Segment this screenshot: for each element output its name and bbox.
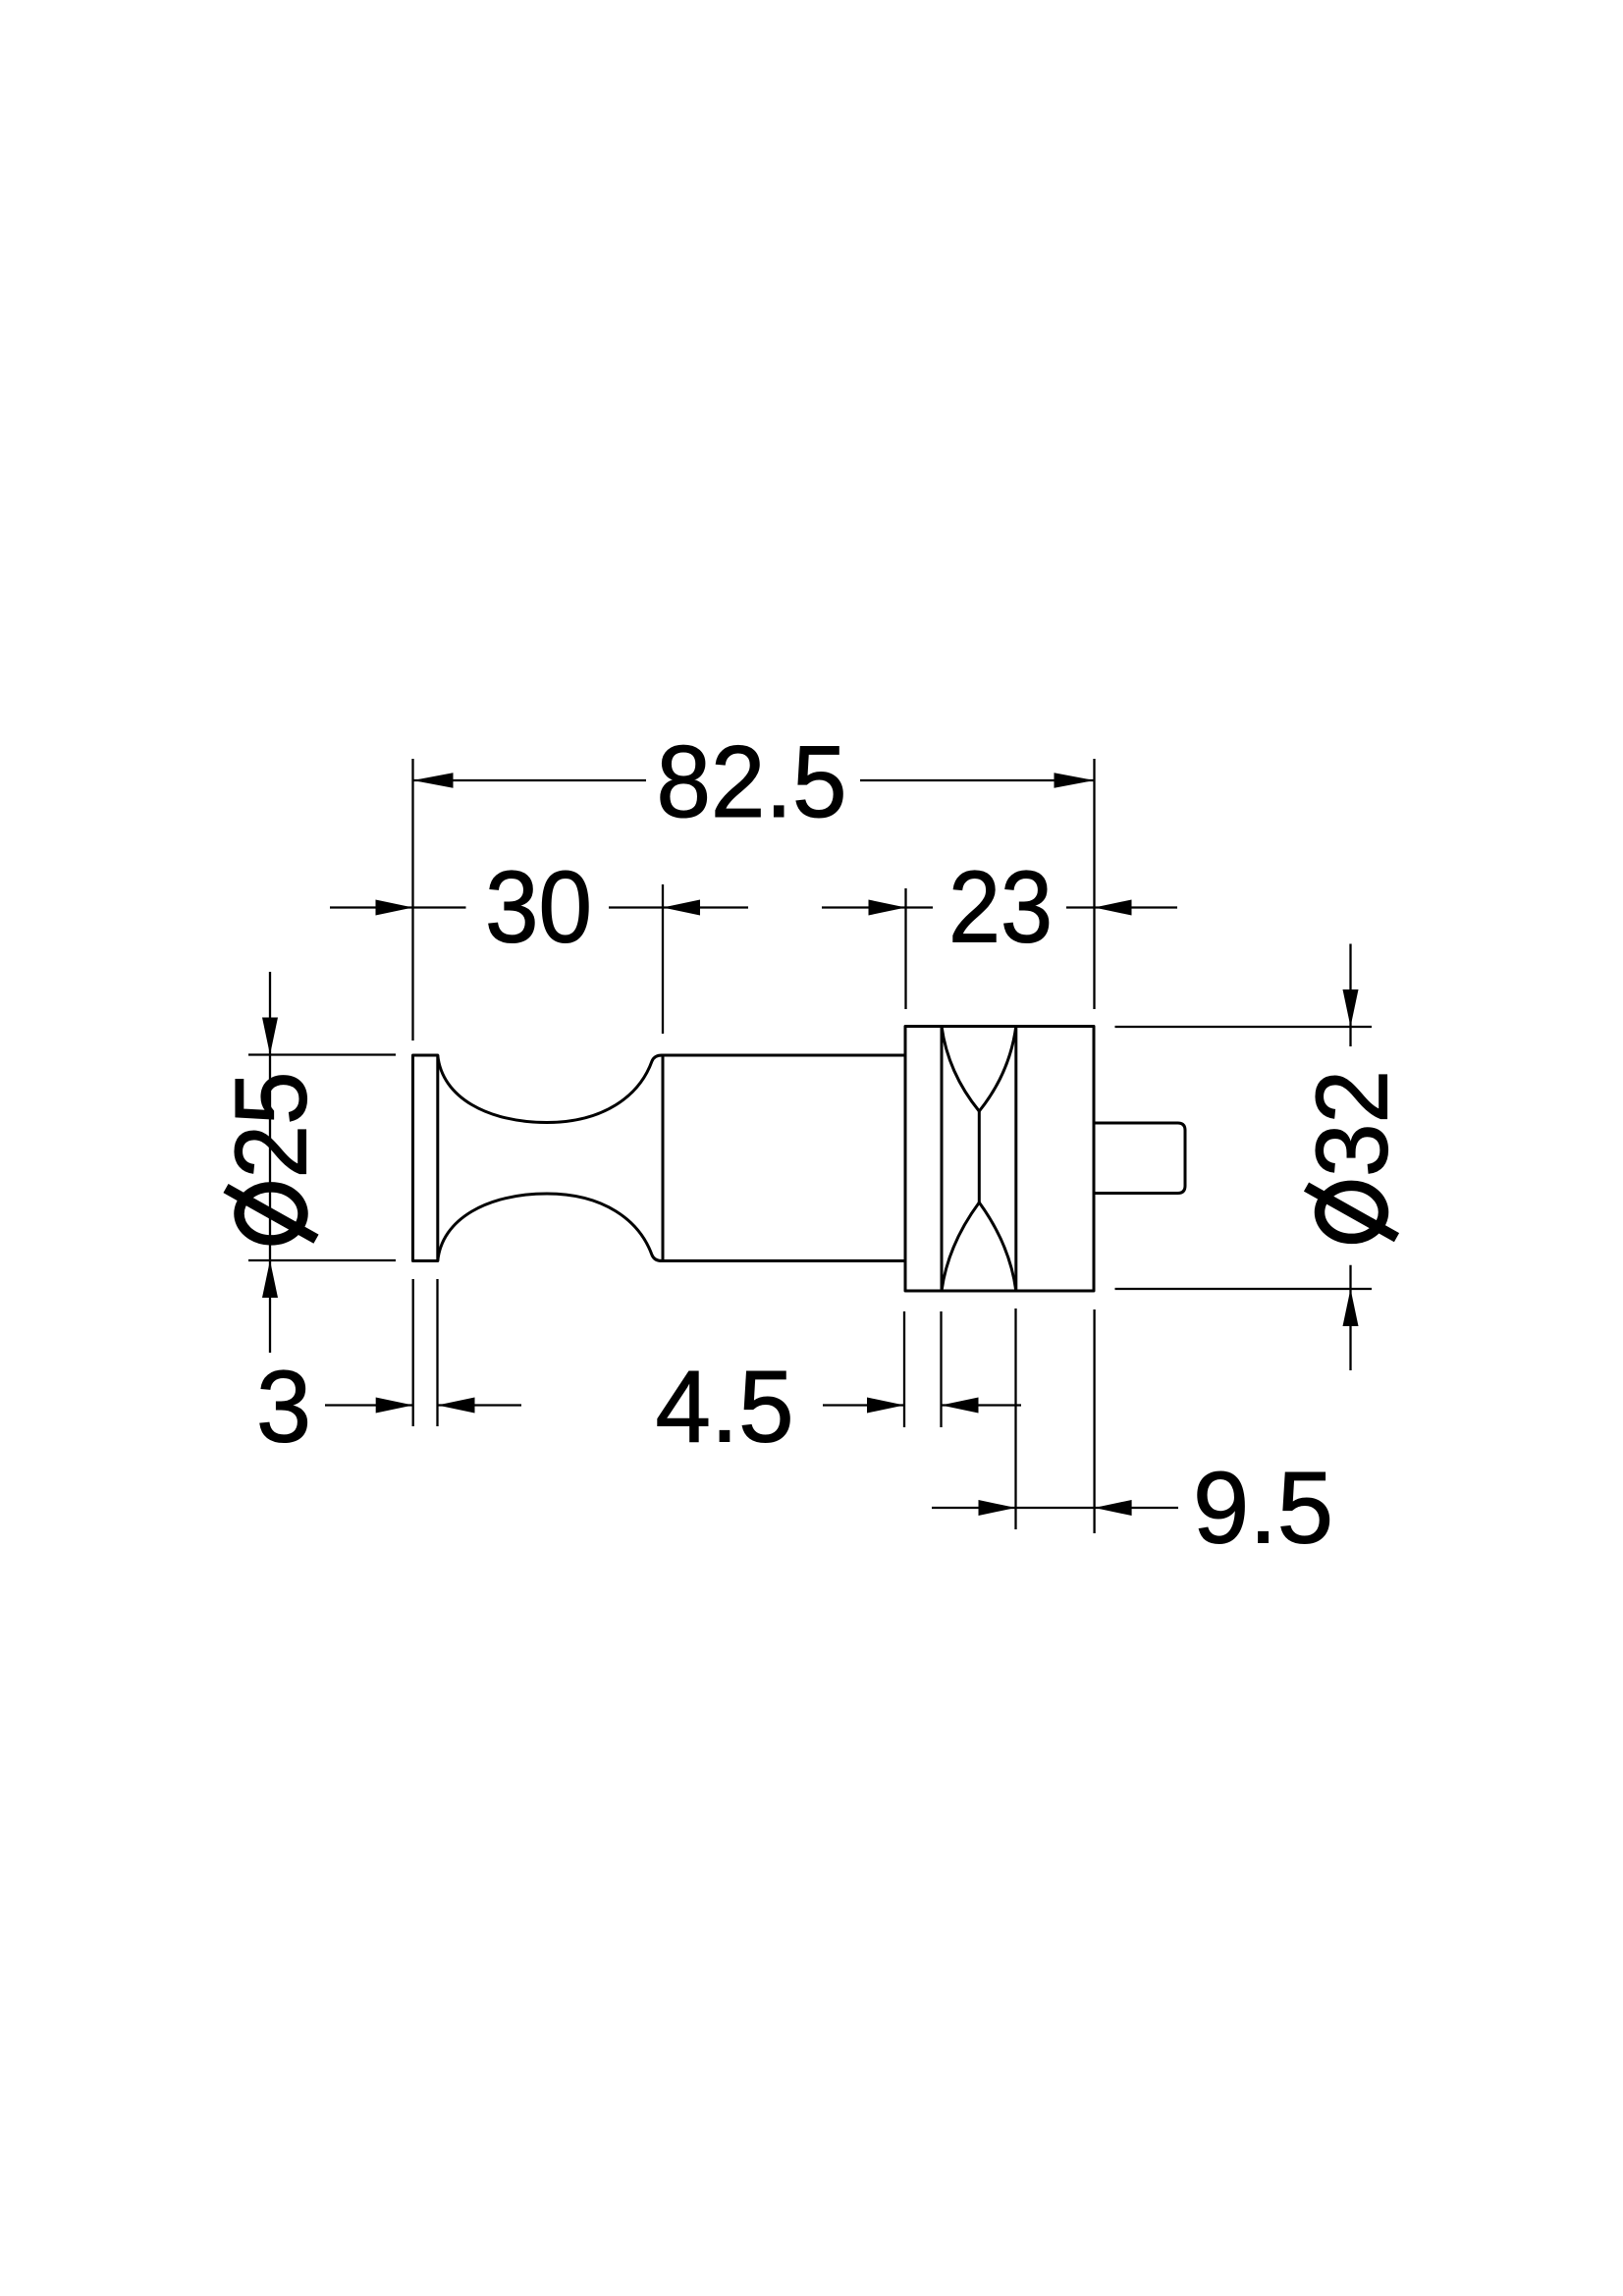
arrow Ø32 top <box>1343 989 1359 1027</box>
dim line Ø25 vertical <box>269 972 271 1353</box>
rotated dim text Ø25 <box>215 1072 329 1241</box>
plate left face edge line <box>904 1027 907 1291</box>
9.5 dim extension lines <box>1014 1308 1016 1529</box>
svg-text:9.5: 9.5 <box>1193 1452 1333 1566</box>
arrow Ø25 top <box>262 1018 278 1055</box>
groove left line <box>941 1027 944 1292</box>
arrow 23 right <box>1095 900 1132 916</box>
arrow 82.5 left <box>413 773 454 787</box>
dim line 23 <box>822 906 906 908</box>
neck/cylinder tangent edge line <box>662 1056 665 1260</box>
arrow 30 left <box>376 900 413 916</box>
rotated dim text Ø32 <box>1296 1070 1410 1239</box>
arrow 3 left <box>376 1398 413 1414</box>
groove center line <box>978 1111 981 1202</box>
groove right line <box>1014 1027 1017 1292</box>
extension line x922 (23 left) <box>904 888 906 1009</box>
arrow 9.5 left <box>979 1500 1016 1516</box>
extension line right x1114 (82.5/23) <box>1093 759 1095 1009</box>
svg-text:23: 23 <box>948 851 1053 965</box>
extension line x675 (30 right) <box>662 884 664 1034</box>
svg-text:32: 32 <box>1296 1070 1410 1177</box>
arrow 4.5 right <box>942 1398 979 1414</box>
arrow Ø25 bottom <box>262 1260 278 1298</box>
Ø32 dim line segments <box>1349 944 1351 1047</box>
9.5 dim line <box>932 1507 1095 1509</box>
svg-text:4.5: 4.5 <box>656 1351 794 1465</box>
cap right edge line <box>436 1055 439 1261</box>
arrow 3 right <box>438 1398 475 1414</box>
dim line 30 <box>330 906 413 908</box>
part outline: knob cap, neck, cylinder, plate, stud <box>413 1027 1186 1292</box>
4.5 dim line <box>823 1404 904 1406</box>
svg-text:25: 25 <box>215 1072 329 1179</box>
Ø25 extension lines <box>248 1053 396 1055</box>
svg-text:82.5: 82.5 <box>657 725 847 839</box>
arrow 9.5 right <box>1095 1500 1132 1516</box>
svg-text:30: 30 <box>485 851 592 965</box>
plate right face edge line behind stud <box>1093 1123 1096 1194</box>
extension line left x420 (82.5/30) <box>411 759 413 1041</box>
svg-text:3: 3 <box>256 1351 311 1465</box>
dim line 82.5 <box>413 779 647 781</box>
arrow 82.5 right <box>1055 773 1095 787</box>
arrow Ø32 bottom <box>1343 1289 1359 1326</box>
4.5 dim extension lines <box>903 1311 905 1427</box>
Ø32 extension lines <box>1115 1026 1373 1028</box>
arrow 4.5 left <box>867 1398 904 1414</box>
groove bottom V curves <box>942 1202 979 1291</box>
3 dim line <box>325 1404 413 1406</box>
3 dim extension lines <box>412 1279 414 1426</box>
groove top V curves <box>942 1027 979 1112</box>
arrow 23 left <box>869 900 906 916</box>
arrow 30 right <box>663 900 700 916</box>
